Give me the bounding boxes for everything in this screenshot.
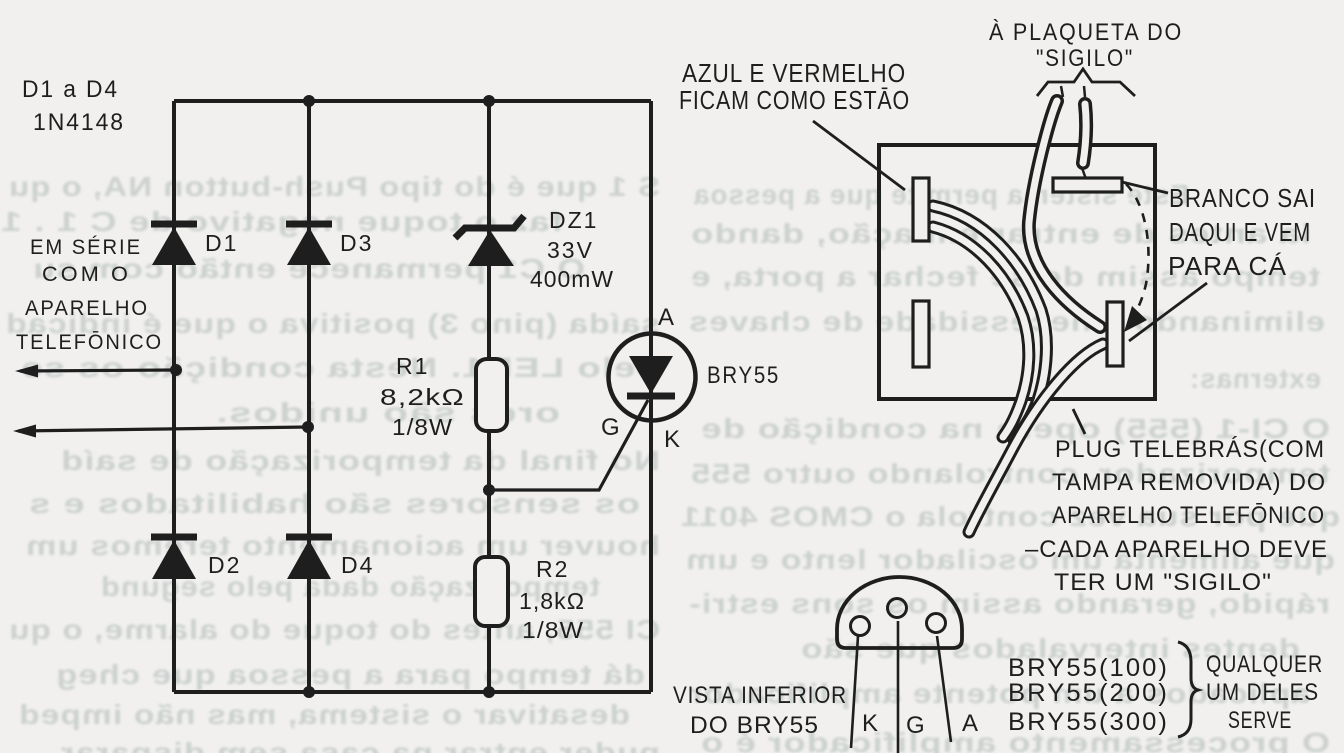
transistor case bottom view BRY55 <box>837 577 962 648</box>
svg-text:TAMPA REMOVIDA) DO: TAMPA REMOVIDA) DO <box>1052 469 1326 496</box>
pointer line to plug caption <box>1073 409 1085 434</box>
dashed arrow white wire move <box>1124 184 1149 332</box>
diode D2 <box>151 537 197 579</box>
svg-text:BRY55(300): BRY55(300) <box>1008 708 1169 736</box>
label D4 <box>341 552 374 578</box>
wire pair from left slot upper <box>933 206 1046 440</box>
svg-text:–CADA APARELHO DEVE: –CADA APARELHO DEVE <box>1025 536 1328 563</box>
svg-text:TELEFŌNICO: TELEFŌNICO <box>16 331 163 354</box>
svg-text:G: G <box>601 414 620 441</box>
pin label K <box>862 710 878 737</box>
label D3 <box>340 230 373 256</box>
svg-text:A: A <box>962 710 978 737</box>
svg-text:dá tempo para a pessoa que che: dá tempo para a pessoa que cheg <box>55 659 645 690</box>
svg-text:D2: D2 <box>208 552 241 578</box>
node top junction D3 <box>303 95 315 107</box>
label D1 <box>205 230 238 256</box>
label EM SERIE COM O APARELHO TELEFONICO <box>16 236 163 354</box>
slot left upper <box>913 178 929 241</box>
pointer line azul to left slot <box>813 121 905 190</box>
svg-text:No final da temporização de sa: No final da temporização de saíd <box>60 445 660 476</box>
wire SCR branch <box>649 101 653 692</box>
wire AC arrow 1 <box>15 364 182 378</box>
slot left lower <box>913 301 929 367</box>
wire from right slot down-left <box>969 344 1103 532</box>
label BRY55 <box>707 362 780 389</box>
label BRY55 types list <box>1008 654 1169 736</box>
label D1 a D4 1N4148 <box>22 76 125 136</box>
node top junction DZ1 <box>483 95 495 107</box>
page bleed-through text (mirrored verso print) <box>0 171 1340 753</box>
label QUALQUER UM DELES SERVE <box>1206 651 1323 734</box>
svg-text:AZUL E VERMELHO: AZUL E VERMELHO <box>682 58 906 88</box>
svg-text:APARELHO: APARELHO <box>25 297 149 320</box>
svg-text:DO BRY55: DO BRY55 <box>690 712 819 739</box>
label A PLAQUETA DO SIGILO <box>989 19 1183 72</box>
wire bare tips above plug <box>1061 86 1085 97</box>
pin lead G <box>897 621 900 753</box>
brace qualquer <box>1178 642 1198 737</box>
pin label G <box>601 414 620 441</box>
diode D4 <box>286 537 332 579</box>
telephone wall plate outline <box>879 145 1155 399</box>
svg-text:PLUG TELEBRÁS(COM: PLUG TELEBRÁS(COM <box>1055 436 1325 463</box>
pin label K <box>664 426 680 453</box>
svg-text:QUALQUER: QUALQUER <box>1206 651 1323 678</box>
label BRANCO SAI DAQUI E VEM PARA CA <box>1168 183 1316 281</box>
svg-text:DZ1: DZ1 <box>549 207 598 233</box>
svg-text:1/8W: 1/8W <box>392 414 453 440</box>
svg-text:1,8kΩ: 1,8kΩ <box>519 588 585 614</box>
svg-text:eliminando a necessidade de ch: eliminando a necessidade de chaves <box>688 306 1325 337</box>
svg-text:BRANCO SAI: BRANCO SAI <box>1169 183 1316 213</box>
wire bottom rail <box>174 690 651 694</box>
slot top horizontal <box>1053 178 1122 192</box>
pin lead A <box>937 636 951 742</box>
diode D3 <box>286 224 332 265</box>
svg-text:COM O: COM O <box>42 263 131 286</box>
svg-text:A: A <box>658 304 674 331</box>
resistor R2 <box>475 557 508 626</box>
node bottom junction D4 <box>303 686 315 698</box>
svg-text:S 1 que é do tipo Push-button: S 1 que é do tipo Push-button NA, o qu <box>8 171 660 202</box>
svg-text:R2: R2 <box>536 556 569 582</box>
svg-text:SERVE: SERVE <box>1228 707 1292 734</box>
wire left branch D1-D2 <box>172 101 176 692</box>
node bottom junction R2 <box>483 686 495 698</box>
svg-text:D4: D4 <box>341 552 374 578</box>
svg-text:1N4148: 1N4148 <box>33 109 125 136</box>
label VISTA INFERIOR DO BRY55 <box>673 682 847 739</box>
wire zener-resistor branch <box>487 101 491 692</box>
svg-text:"SIGILO": "SIGILO" <box>1036 45 1134 72</box>
svg-text:faz o toque negativo de C 1 .: faz o toque negativo de C 1 . 1 <box>0 206 563 237</box>
svg-text:33V: 33V <box>547 237 594 263</box>
svg-text:D3: D3 <box>340 230 373 256</box>
svg-text:À PLAQUETA DO: À PLAQUETA DO <box>989 19 1183 46</box>
svg-text:K: K <box>862 710 878 737</box>
wire top rail <box>174 99 651 103</box>
svg-text:D1 a D4: D1 a D4 <box>22 76 119 103</box>
pin label A <box>658 304 674 331</box>
svg-text:BRY55(100): BRY55(100) <box>1008 654 1169 682</box>
svg-text:G: G <box>906 712 925 739</box>
svg-text:PARA CÁ: PARA CÁ <box>1168 251 1287 281</box>
pin label A <box>962 710 978 737</box>
resistor R1 <box>476 359 507 431</box>
label R2 value <box>519 556 585 643</box>
label D2 <box>208 552 241 578</box>
svg-text:8,2kΩ: 8,2kΩ <box>380 384 465 410</box>
label AZUL E VERMELHO <box>679 58 910 115</box>
pointer line branco to top slot <box>1122 182 1168 193</box>
label PLUG TELEBRAS caption <box>1025 436 1328 596</box>
wire gate of BRY55 <box>483 400 648 496</box>
brace over sigilo wires <box>1037 69 1135 96</box>
thyristor Q1 BRY55 <box>609 334 696 421</box>
label DZ1 value <box>530 207 614 292</box>
svg-text:externas:: externas: <box>1189 363 1321 394</box>
label R1 value <box>380 353 465 440</box>
svg-text:puder entrar na casa sem dispa: puder entrar na casa sem disparar <box>60 737 660 753</box>
svg-text:K: K <box>664 426 680 453</box>
svg-text:pelo LED1. Nesta condição os s: pelo LED1. Nesta condição os se <box>20 352 660 383</box>
svg-text:os sensores são habilitados e: os sensores são habilitados e s <box>28 488 640 519</box>
svg-text:D1: D1 <box>205 230 238 256</box>
svg-text:400mW: 400mW <box>530 266 614 292</box>
pin lead K <box>851 636 858 748</box>
wire AC arrow 2 <box>13 421 314 438</box>
diode D1 <box>151 224 197 265</box>
svg-text:R1: R1 <box>396 353 429 379</box>
svg-text:VISTA INFERIOR: VISTA INFERIOR <box>673 682 847 709</box>
svg-text:EM SÉRIE: EM SÉRIE <box>30 236 142 259</box>
pin label G <box>906 712 925 739</box>
svg-text:APARELHO TELEFŌNICO: APARELHO TELEFŌNICO <box>1052 502 1325 529</box>
pointer line para ca to right slot <box>1129 283 1207 341</box>
svg-text:FICAM COMO ESTĀO: FICAM COMO ESTĀO <box>679 85 910 115</box>
svg-text:DAQUI E VEM: DAQUI E VEM <box>1169 217 1311 247</box>
slot right vertical <box>1107 302 1123 366</box>
wire middle branch D3-D4 <box>307 101 311 692</box>
wire short pin at top slot <box>1082 104 1086 179</box>
zener diode DZ1 <box>455 216 524 266</box>
svg-text:BRY55: BRY55 <box>707 362 780 389</box>
svg-text:BRY55(200): BRY55(200) <box>1008 679 1169 707</box>
svg-text:UM DELES: UM DELES <box>1206 679 1319 706</box>
svg-text:TER UM "SIGILO": TER UM "SIGILO" <box>1054 569 1272 596</box>
svg-text:1/8W: 1/8W <box>522 617 584 643</box>
wire white from top to right slot <box>1029 101 1100 327</box>
wire from left slot lower <box>933 227 1029 437</box>
svg-text:desativar o sistema, mas não i: desativar o sistema, mas não imped <box>18 699 630 730</box>
